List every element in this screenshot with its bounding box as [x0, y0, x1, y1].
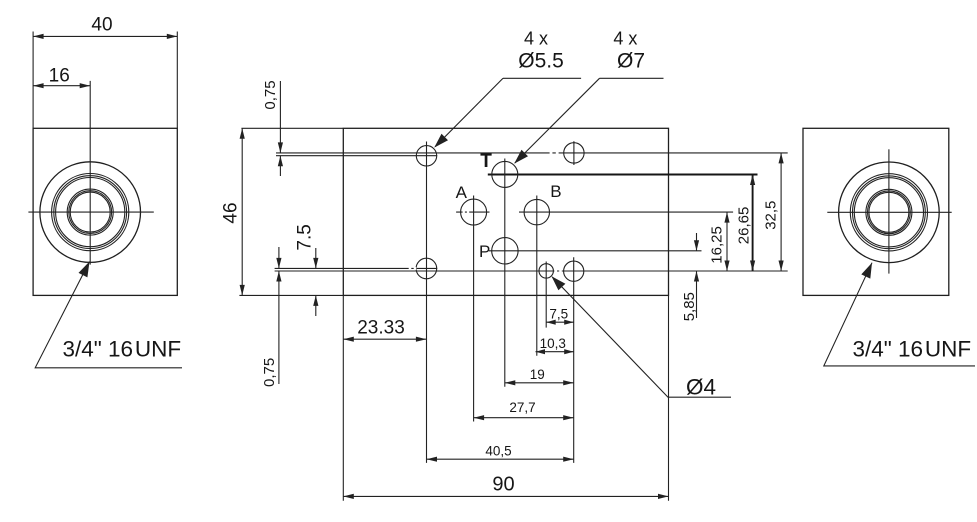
- svg-text:A: A: [456, 183, 468, 202]
- leader line Ø7 to T hole: [515, 78, 600, 163]
- leader arrowhead Ø7: [514, 150, 528, 164]
- svg-text:7,5: 7,5: [549, 306, 568, 321]
- svg-text:5,85: 5,85: [681, 292, 698, 321]
- dimension 90 arrow right: [658, 494, 669, 499]
- dimension 23.33 line: [343, 338, 426, 340]
- left port horizontal centerline: [28, 211, 153, 213]
- right port counterbore ring 3: [854, 178, 923, 247]
- column extension line through bottom-right mounting hole: [573, 257, 575, 463]
- dimension 40 arrow right: [167, 34, 178, 39]
- dimension 16 arrow right: [80, 83, 91, 88]
- svg-text:4 x: 4 x: [613, 29, 637, 49]
- svg-text:19: 19: [530, 367, 545, 382]
- P port hole: [492, 238, 518, 264]
- dimension 0,75 bottom tail above: [278, 247, 280, 268]
- dimension 7,5 arrow right: [564, 320, 574, 325]
- svg-text:P: P: [479, 242, 490, 261]
- dimension 16 line: [33, 85, 90, 87]
- centerline of top-left mounting hole (lower left pair line): [276, 155, 437, 157]
- dimension 7.5 tail below: [315, 295, 317, 316]
- right port counterbore ring 1: [850, 174, 927, 251]
- left port thread ring 1: [67, 189, 113, 235]
- svg-text:32,5: 32,5: [762, 201, 779, 230]
- leader line Ø5.5 to top-left hole: [435, 78, 503, 146]
- dimension 46 arrow bottom: [240, 285, 245, 296]
- svg-text:40,5: 40,5: [485, 443, 511, 458]
- centerline of P port extended to 5,85 dim: [489, 250, 702, 252]
- svg-text:3/4" 16 UNF: 3/4" 16 UNF: [63, 337, 182, 362]
- right leader line: [824, 263, 975, 366]
- dimension 40,5 line: [427, 458, 574, 460]
- dimension 32,5 arrow top: [779, 153, 784, 164]
- column extension line through T and P ports: [504, 159, 506, 387]
- bottom-right mounting hole Ø5.5: [564, 261, 584, 281]
- leader underline Ø7: [600, 77, 664, 79]
- B port hole: [524, 199, 549, 224]
- plate top edge extension to 46 dim: [241, 127, 343, 129]
- svg-text:46: 46: [220, 202, 241, 223]
- dimension 40,5 arrow left: [427, 457, 438, 462]
- svg-text:16: 16: [49, 66, 70, 87]
- svg-text:10,3: 10,3: [540, 336, 566, 351]
- column extension line through B port: [536, 196, 538, 356]
- right port thread ring 2: [868, 191, 911, 234]
- svg-text:Ø7: Ø7: [617, 50, 645, 73]
- dimension 26,65 arrow top: [750, 175, 755, 186]
- column extension line through Ø4 hole: [545, 262, 547, 328]
- dimension 27,7 arrow right: [563, 415, 574, 420]
- svg-text:26,65: 26,65: [736, 207, 753, 245]
- dimension 0,75 bottom tail below: [278, 271, 280, 384]
- dimension 7.5 tail above: [315, 248, 317, 268]
- dimension 5,85 arrow up: [694, 271, 699, 282]
- right port counterbore ring 2: [853, 176, 926, 249]
- dimension 16,25 arrow bottom: [724, 261, 729, 272]
- centerline of bottom-right holes row: [275, 270, 788, 272]
- dimension 10,3 line: [536, 351, 574, 353]
- dimension 90 arrow left: [343, 494, 354, 499]
- svg-text:40: 40: [91, 15, 112, 36]
- dimension 26,65 line (bold): [752, 175, 754, 272]
- left port counterbore ring 1: [52, 174, 129, 251]
- right port bore: [869, 192, 909, 232]
- dimension 27,7 line: [474, 417, 574, 419]
- left leader line: [35, 262, 182, 368]
- dimension 46 arrow top: [240, 128, 245, 139]
- centerline of A port: [456, 211, 489, 213]
- dimension 7,5 arrow left: [546, 320, 556, 325]
- svg-text:0,75: 0,75: [261, 358, 278, 387]
- centerline of B port extended to 16,25 dim: [519, 211, 733, 213]
- dimension 40 arrow left: [33, 34, 44, 39]
- dimension 5,85 tail above: [696, 233, 698, 251]
- dimension 0,75 top tail above: [279, 81, 281, 153]
- dimension 0,75 top tail below: [279, 156, 281, 176]
- dimension 40,5 arrow right: [563, 457, 574, 462]
- leader underline Ø5.5: [503, 77, 581, 79]
- svg-text:90: 90: [492, 474, 514, 496]
- svg-text:3/4" 16 UNF: 3/4" 16 UNF: [853, 337, 972, 362]
- dimension 40 line: [33, 35, 177, 37]
- dimension 16,25 arrow top: [724, 212, 729, 223]
- A port hole: [461, 199, 487, 225]
- left port vertical centerline: [89, 81, 91, 265]
- dimension 23.33 arrow right: [416, 337, 427, 342]
- right leader arrowhead: [861, 263, 872, 279]
- left port bore: [70, 192, 110, 232]
- column extension line through A port: [473, 196, 475, 422]
- plate left edge extension below: [342, 295, 344, 500]
- dimension 19 arrow left: [505, 380, 516, 385]
- dimension 10,3 arrow left: [536, 349, 546, 354]
- dimension 7.5 arrow up: [313, 295, 318, 306]
- svg-text:4 x: 4 x: [524, 29, 548, 49]
- centerline of bottom-left mounting hole: [275, 267, 438, 269]
- left port outer circle: [40, 162, 141, 263]
- svg-text:7.5: 7.5: [295, 224, 316, 250]
- dimension 32,5 line: [780, 153, 782, 271]
- plate outline: [343, 128, 668, 295]
- dimension 5,85 arrow down: [694, 240, 699, 251]
- dimension 7,5 line: [546, 321, 574, 323]
- svg-text:27,7: 27,7: [509, 400, 535, 415]
- left port counterbore ring 3: [56, 178, 125, 247]
- left block outline: [33, 128, 177, 295]
- T port hole Ø7: [492, 161, 518, 187]
- left leader arrowhead: [79, 262, 90, 278]
- right port vertical centerline: [888, 149, 890, 273]
- dimension 5,85 tail below: [696, 271, 698, 318]
- plate right edge extension below: [668, 295, 670, 500]
- dimension 0,75 top arrow up: [278, 156, 283, 167]
- centerline dash-dot gaps: [409, 152, 562, 273]
- dimension 90 line: [343, 495, 668, 497]
- plate bottom edge extension to 46 dim: [239, 294, 343, 296]
- svg-text:B: B: [550, 182, 561, 201]
- right port outer circle: [839, 162, 940, 263]
- dimension 10,3 arrow right: [564, 349, 574, 354]
- bold centerline of T port extended to 26,65 dim: [488, 174, 758, 176]
- top-left mounting hole Ø5.5: [416, 146, 436, 166]
- Ø4 leader arrowhead: [552, 276, 566, 290]
- svg-text:T: T: [480, 151, 492, 172]
- top-right mounting hole Ø5.5: [564, 143, 584, 163]
- dimension 0,75 top arrow down: [278, 142, 283, 153]
- top-right mounting hole vertical centerline: [573, 141, 575, 165]
- dimension 16 arrow left: [33, 83, 44, 88]
- locating hole Ø4: [539, 264, 553, 278]
- dimension 7.5 arrow down: [313, 258, 318, 269]
- right block outline: [803, 128, 949, 295]
- bottom-left mounting hole Ø5.5: [416, 258, 437, 279]
- Ø4 leader line: [552, 277, 731, 397]
- left port counterbore ring 2: [54, 176, 127, 249]
- centerline of top-right mounting hole (upper left pair line): [276, 152, 788, 154]
- svg-text:16,25: 16,25: [709, 226, 726, 264]
- dimension 0,75 bottom arrow down: [276, 258, 281, 269]
- dimension 19 line: [505, 382, 574, 384]
- dimension 32,5 arrow bottom: [779, 261, 784, 272]
- svg-text:Ø5.5: Ø5.5: [518, 50, 564, 73]
- left port thread ring 2: [69, 191, 112, 234]
- dimension 16,25 line: [726, 212, 728, 271]
- dimension 19 arrow right: [563, 380, 574, 385]
- svg-text:23.33: 23.33: [357, 318, 405, 339]
- column extension line through left mounting holes: [426, 142, 428, 463]
- dimension 0,75 bottom arrow up: [276, 271, 281, 282]
- dimension 26,65 arrow bottom: [750, 261, 755, 272]
- dimension 40 extension line right: [176, 32, 178, 129]
- dimension 23.33 arrow left: [343, 337, 354, 342]
- right port horizontal centerline: [827, 211, 951, 213]
- dimension 40 extension line left: [32, 32, 34, 129]
- right port thread ring 1: [866, 189, 912, 235]
- leader arrowhead Ø5.5: [434, 134, 448, 148]
- svg-text:Ø4: Ø4: [686, 375, 716, 400]
- dimension 46 line: [241, 128, 243, 295]
- dimension 27,7 arrow left: [474, 415, 485, 420]
- svg-text:0,75: 0,75: [262, 80, 279, 109]
